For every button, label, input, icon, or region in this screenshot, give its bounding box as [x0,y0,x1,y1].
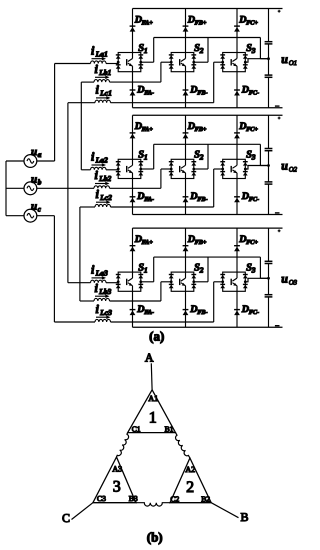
label D_FC+ [238,234,258,246]
diode D_FB- module 3 [183,310,189,316]
wire Lc riser to S3 left, module 3 [214,282,223,322]
S3 (module 3) bridge diode top-right [243,275,248,279]
S1 (module 2) bridge diode top-right [138,162,143,166]
AC source u_b [24,182,37,195]
module 2 positive DC rail [133,114,283,116]
svg-text:(a): (a) [149,328,164,343]
S2 (module 2) bridge diode top-left [169,162,174,166]
label D_FA- [136,84,154,96]
inductor i_Lb1 wire and coil [81,80,161,83]
wire Lc riser to S3 left, module 1 [214,62,223,102]
label D_FA- [136,191,154,203]
output capacitor line, module 1 [268,9,270,108]
wire Lb riser to S2 left, module 3 [161,282,171,301]
module 3 positive DC rail [133,227,283,229]
svg-text:FA+: FA+ [142,19,154,26]
svg-text:La3: La3 [95,269,108,278]
module 2 phase C leg wire [236,115,238,214]
label i_Lc1 [96,83,113,98]
S3 (module 3) right node [244,280,247,283]
svg-text:3: 3 [251,265,256,274]
AC source u_a [24,155,37,168]
svg-text:B1: B1 [165,425,174,434]
svg-text:FB+: FB+ [195,126,207,133]
module 3 negative DC rail [133,326,283,328]
inductor i_Lb3 wire and coil [80,298,161,301]
label D_FC- [241,191,259,203]
module 3 phase B leg wire [185,228,187,327]
S2 (module 3) left node [170,280,173,283]
inductor i_Lb2 wire and coil [37,186,161,189]
S2 (module 1) right node [192,61,195,64]
wire Lb riser to S2 left, module 2 [161,169,171,188]
wire S3 right to capacitor midpoint, module 1 [245,59,268,63]
wire midpoint bus drop, module 3 [260,257,268,278]
junction capacitor midpoint, module 3 [267,277,270,280]
capacitor C2a [265,149,273,151]
svg-text:A3: A3 [112,464,122,473]
S1 (module 1) bridge diode bottom-right [138,65,143,69]
winding triangle 2 [170,458,211,503]
label D_FB- [189,191,207,203]
S1 (module 3) left node [117,280,120,283]
S2 (module 1) bridge diode top-left [169,55,174,59]
output capacitor line, module 2 [268,115,270,214]
label i_Lb1 [95,62,112,77]
svg-text:La1: La1 [95,49,108,58]
label 2 [186,479,194,496]
wire left bus to source u_a [6,160,24,162]
current arrow i_Lb3 [95,294,110,298]
module 1 phase A leg wire [132,9,134,108]
label A2 [185,465,195,474]
label i_Lc3 [96,302,113,317]
S3 (module 3) bridge diode top-left [220,275,225,279]
current arrow i_Lb2 [95,182,110,186]
svg-text:FB-: FB- [197,196,207,203]
bidirectional switch S2 (module 1) diode bridge box [171,53,194,72]
label S2 module 1 [194,43,204,55]
winding coil B3-C2 (bottom) [136,503,170,506]
S3 (module 1) bridge diode top-left [220,55,225,59]
current arrow i_Lc3 [96,315,111,319]
S2 (module 2) left node [170,168,173,171]
current arrow i_Lc2 [96,200,111,204]
plus polarity mark, module 3 [278,229,281,232]
S1 (module 3) right node [139,280,142,283]
wire S1 right stub to riser, module 3 [141,257,154,282]
capacitor C3a [265,261,273,263]
S1 (module 1) left node [117,61,120,64]
label S1 module 1 [138,43,147,55]
label D_FB- [189,84,207,96]
label D_FC- [241,84,259,96]
module 1 negative DC rail [133,107,283,109]
svg-text:C2: C2 [170,495,179,504]
node C lead wire [72,503,93,520]
output capacitor line, module 3 [268,228,270,327]
label C3 [97,494,106,503]
wire S3 right to capacitor midpoint, module 3 [245,278,268,282]
current arrow i_La2 [92,163,107,167]
label u_O3 [281,272,297,287]
module 1 phase C leg wire [236,9,238,108]
wire S2 right stub to riser, module 1 [194,38,208,63]
diode D_FC- module 2 [234,197,240,203]
module 3 phase C leg wire [236,228,238,327]
inductor i_La3 wire and coil [68,280,118,283]
svg-text:u: u [31,201,37,213]
S2 (module 3) bridge diode top-right [191,275,196,279]
svg-text:O2: O2 [289,167,298,174]
S3 (module 3) bridge diode bottom-right [243,284,248,288]
module 3 phase A leg wire [132,228,134,327]
S2 (module 2) bridge diode bottom-left [169,172,174,176]
diode D_FB+ module 3 [183,246,189,252]
diode D_FA- module 2 [130,197,136,203]
S3 (module 2) bridge diode bottom-right [243,172,248,176]
svg-text:1: 1 [144,265,148,274]
svg-text:FA-: FA- [144,196,154,203]
svg-text:2: 2 [199,153,204,162]
S2 (module 2) bridge diode top-right [191,162,196,166]
S1 (module 2) bridge diode bottom-right [138,172,143,176]
label i_La2 [91,150,108,165]
label B1 [165,425,174,434]
svg-text:FC+: FC+ [246,239,258,246]
svg-text:2: 2 [186,479,194,496]
S1 (module 2) IGBT [127,159,133,178]
inductor i_Lc3 wire and coil [54,319,213,322]
label i_La1 [91,43,108,58]
S1 (module 3) bridge diode bottom-right [138,284,143,288]
S1 (module 2) bridge diode bottom-left [116,172,121,176]
svg-text:Lc2: Lc2 [99,193,112,202]
S3 (module 3) left node [221,280,224,283]
module 1 positive DC rail [133,8,283,10]
S1 (module 1) right node [139,61,142,64]
svg-text:FB-: FB- [197,89,207,96]
svg-text:C3: C3 [97,494,106,503]
AC source left bus wire [5,161,7,216]
svg-text:1: 1 [144,153,148,162]
wire Lb riser to S2 left, module 1 [161,62,171,82]
wire left bus to source u_b [6,187,24,189]
S3 (module 1) right node [244,61,247,64]
diode D_FA- module 3 [130,310,136,316]
svg-text:FA+: FA+ [142,126,154,133]
label C2 [170,495,179,504]
S3 (module 3) IGBT [231,272,237,291]
capacitor C3b [265,295,273,297]
S3 (module 1) IGBT [231,53,237,72]
winding triangle 3 [93,457,136,503]
svg-text:La2: La2 [95,156,108,165]
label D_FB+ [187,234,207,246]
label 3 [113,479,121,496]
minus polarity mark, module 3 [275,325,280,327]
S2 (module 3) right node [192,280,195,283]
label D_FC+ [238,121,258,133]
node B lead wire [211,503,238,518]
S3 (module 2) bridge diode top-right [243,162,248,166]
S1 (module 2) bridge diode top-left [116,162,121,166]
label D_FA+ [134,234,154,246]
label A [145,351,154,365]
caption (b) [147,530,163,545]
S1 (module 1) bridge diode bottom-left [116,65,121,69]
S1 (module 3) bridge diode top-left [116,275,121,279]
diode D_FC+ module 3 [234,246,240,252]
module 2 phase A leg wire [132,115,134,214]
winding coil B1-A2 [176,433,190,458]
svg-text:u: u [281,52,288,66]
S1 (module 3) IGBT [127,272,133,291]
label B2 [201,495,210,504]
svg-text:Lb1: Lb1 [98,68,111,77]
S3 (module 2) left node [221,168,224,171]
diode D_FC- module 3 [234,310,240,316]
diode D_FC- module 1 [234,90,240,96]
chain wire Lc2 to Lb3 [79,207,81,301]
S3 (module 2) bridge diode top-left [220,162,225,166]
svg-text:u: u [31,146,37,158]
chain wire Lc1 to La3 [67,103,69,283]
wire midpoint bus drop, module 2 [260,144,268,165]
S2 (module 2) right node [192,168,195,171]
junction capacitor midpoint, module 1 [267,57,270,60]
diode D_FB+ module 1 [183,26,189,32]
bidirectional switch S3 (module 1) diode bridge box [223,53,246,72]
svg-text:B3: B3 [129,494,138,503]
bidirectional switch S1 (module 3) diode bridge box [118,272,141,291]
current arrow i_Lb1 [95,76,110,80]
caption (a) [149,328,164,343]
S2 (module 1) IGBT [180,53,186,72]
svg-text:FB+: FB+ [195,239,207,246]
svg-text:a: a [38,150,42,159]
wire u_c to Lc3 drop [37,216,55,322]
S2 (module 1) bridge diode bottom-left [169,65,174,69]
svg-text:3: 3 [251,153,256,162]
label S2 module 3 [194,262,204,274]
S3 (module 2) right node [244,168,247,171]
AC source u_c [24,209,37,222]
winding coil C1-A3 [117,433,129,457]
svg-text:A1: A1 [148,394,158,403]
module 1 phase B leg wire [185,9,187,108]
label i_Lb3 [95,281,112,296]
S2 (module 3) IGBT [180,272,186,291]
label 1 [149,410,157,427]
label D_FA- [136,304,154,316]
S3 (module 2) IGBT [231,159,237,178]
svg-text:FA-: FA- [144,309,154,316]
label u_O1 [281,52,297,67]
module 2 negative DC rail [133,214,283,216]
diode D_FA+ module 1 [130,26,136,32]
current arrow i_Lc1 [96,96,111,100]
svg-text:Lc1: Lc1 [99,89,112,98]
S1 (module 1) bridge diode top-right [138,55,143,59]
S3 (module 1) left node [221,61,224,64]
wire S3 right to capacitor midpoint, module 2 [245,166,268,170]
wire left bus to source u_c [6,215,24,217]
diode D_FC+ module 2 [234,133,240,139]
junction capacitor midpoint, module 2 [267,164,270,167]
label B3 [129,494,138,503]
current arrow i_La3 [92,276,107,280]
label C [62,511,70,525]
svg-text:FC+: FC+ [246,19,258,26]
S1 (module 1) IGBT [127,53,133,72]
svg-text:3: 3 [113,479,121,496]
wire u_a to La1 riser [37,64,55,162]
svg-text:FA+: FA+ [142,239,154,246]
capacitor C2b [265,182,273,184]
svg-text:FC-: FC- [249,89,259,96]
inductor i_La1 wire and coil [55,61,119,64]
diode D_FC+ module 1 [234,26,240,32]
current arrow i_La1 [92,57,107,61]
wire S1 right stub to riser, module 2 [141,144,154,169]
S1 (module 1) bridge diode top-left [116,55,121,59]
inductor i_La2 wire and coil [81,167,118,170]
bidirectional switch S3 (module 3) diode bridge box [223,272,246,291]
S1 (module 2) right node [139,168,142,171]
svg-text:O3: O3 [289,280,298,287]
minus polarity mark, module 2 [275,212,280,214]
label S2 module 2 [194,150,204,162]
minus polarity mark, module 1 [275,105,280,107]
S3 (module 1) bridge diode bottom-right [243,65,248,69]
svg-text:1: 1 [149,410,157,427]
label D_FB+ [187,14,207,26]
svg-text:FC-: FC- [249,196,259,203]
label D_FC+ [238,14,258,26]
label C1 [132,425,141,434]
S3 (module 2) bridge diode bottom-left [220,172,225,176]
wire S2 right stub to riser, module 2 [194,144,208,169]
label D_FB+ [187,121,207,133]
inductor i_Lc1 wire and coil [68,100,214,103]
label A3 [112,464,122,473]
svg-text:u: u [31,173,37,185]
S2 (module 1) left node [170,61,173,64]
label u_a [31,146,42,159]
svg-text:2: 2 [199,46,204,55]
label i_Lc2 [96,187,113,202]
label A1 [148,394,158,403]
module 2 phase B leg wire [185,115,187,214]
wire midpoint bus, module 2 [154,143,261,145]
label D_FA+ [134,121,154,133]
svg-text:FB-: FB- [197,309,207,316]
svg-text:B2: B2 [201,495,210,504]
S2 (module 3) bridge diode top-left [169,275,174,279]
svg-text:Lb3: Lb3 [98,287,111,296]
label S3 module 1 [246,43,256,55]
svg-text:3: 3 [251,46,256,55]
capacitor C1b [265,75,273,77]
svg-text:(b): (b) [147,530,163,545]
bidirectional switch S1 (module 2) diode bridge box [118,159,141,178]
svg-text:Lb2: Lb2 [98,174,111,183]
S3 (module 3) bridge diode bottom-left [220,284,225,288]
wire Lc riser to S3 left, module 2 [214,169,223,207]
S3 (module 1) bridge diode top-right [243,55,248,59]
svg-text:O1: O1 [289,60,297,67]
svg-text:2: 2 [199,265,204,274]
svg-text:A: A [145,351,154,365]
svg-text:C1: C1 [132,425,141,434]
S2 (module 1) bridge diode bottom-right [191,65,196,69]
wire S1 right stub to riser, module 1 [141,38,154,63]
svg-text:1: 1 [144,46,148,55]
label S3 module 2 [246,150,256,162]
label u_c [31,201,42,214]
bidirectional switch S2 (module 2) diode bridge box [171,159,194,178]
label D_FA+ [134,14,154,26]
svg-text:A2: A2 [185,465,195,474]
label S1 module 2 [138,150,147,162]
winding triangle 1 [128,390,176,433]
wire S2 right stub to riser, module 3 [194,257,208,282]
wire midpoint bus, module 1 [154,37,261,39]
S1 (module 2) left node [117,168,120,171]
svg-text:Lc3: Lc3 [99,308,112,317]
S2 (module 1) bridge diode top-right [191,55,196,59]
diode D_FA+ module 3 [130,246,136,252]
svg-text:u: u [281,272,288,286]
S1 (module 3) bridge diode bottom-left [116,284,121,288]
plus polarity mark, module 1 [278,10,281,13]
label S3 module 3 [246,262,256,274]
diode D_FB+ module 2 [183,133,189,139]
inductor i_Lc2 wire and coil [80,204,214,207]
diode D_FB- module 1 [183,90,189,96]
label S1 module 3 [138,262,147,274]
label D_FB- [189,304,207,316]
label i_Lb2 [95,168,112,183]
S2 (module 2) IGBT [180,159,186,178]
label u_O2 [281,159,297,174]
diode D_FA+ module 2 [130,133,136,139]
bidirectional switch S1 (module 1) diode bridge box [118,53,141,72]
svg-text:b: b [38,177,42,186]
node A lead wire [150,363,153,390]
chain wire Lb1 to La2 [80,82,82,170]
bidirectional switch S3 (module 2) diode bridge box [223,159,246,178]
svg-text:C: C [62,511,70,525]
S2 (module 3) bridge diode bottom-left [169,284,174,288]
bidirectional switch S2 (module 3) diode bridge box [171,272,194,291]
diode D_FA- module 1 [130,90,136,96]
svg-text:u: u [281,159,288,173]
capacitor C1a [265,42,273,44]
wire midpoint bus, module 3 [154,256,261,258]
svg-text:FC-: FC- [249,309,259,316]
svg-text:FA-: FA- [144,89,154,96]
label B [240,510,248,524]
diode D_FB- module 2 [183,197,189,203]
svg-text:FC+: FC+ [246,126,258,133]
svg-text:B: B [240,510,248,524]
plus polarity mark, module 2 [278,117,281,120]
S2 (module 3) bridge diode bottom-right [191,284,196,288]
wire midpoint bus drop, module 1 [260,38,268,59]
S1 (module 3) bridge diode top-right [138,275,143,279]
